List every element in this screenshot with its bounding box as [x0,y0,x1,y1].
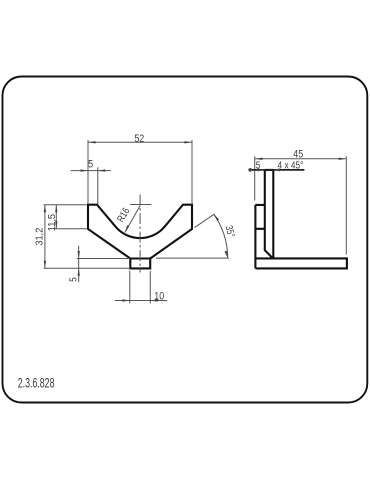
svg-text:11,5: 11,5 [47,213,59,231]
svg-text:2.3.6.828: 2.3.6.828 [18,374,55,391]
svg-text:31,2: 31,2 [34,228,46,246]
svg-text:10: 10 [154,291,164,303]
svg-text:5: 5 [88,159,93,171]
svg-text:52: 52 [134,133,144,145]
svg-text:4 x 45°: 4 x 45° [278,159,304,171]
svg-text:5: 5 [256,160,260,171]
svg-text:5: 5 [68,277,80,282]
